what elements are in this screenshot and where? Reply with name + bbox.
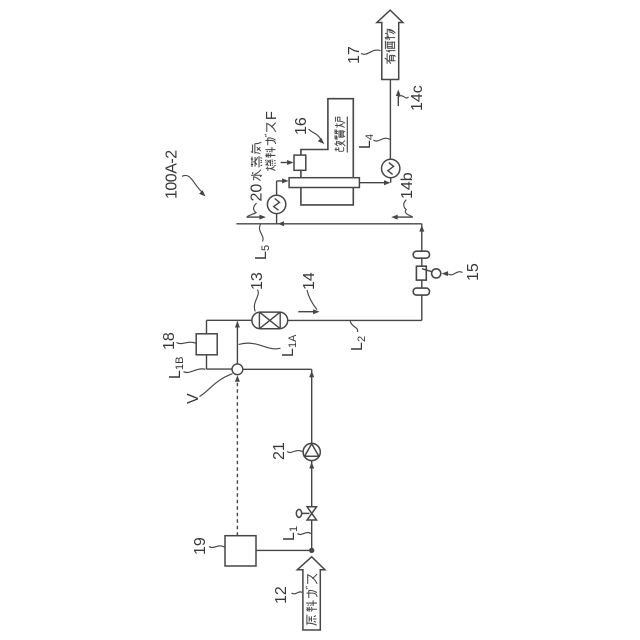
label 16 <box>293 117 324 144</box>
valve on L1 <box>296 507 316 520</box>
label 12 <box>273 586 302 604</box>
label 14b wire continues <box>389 80 391 160</box>
svg-text:5: 5 <box>260 245 272 251</box>
stream arrow 20 (steam in) <box>247 215 266 220</box>
label 21 <box>271 442 303 460</box>
box 18 <box>196 334 217 355</box>
svg-text:14c: 14c <box>409 85 426 111</box>
wire L4 tube to HX to product <box>359 178 390 186</box>
wire pump to corner to mixer V <box>243 369 312 443</box>
furnace 16 outline <box>301 99 353 205</box>
svg-text:1B: 1B <box>174 357 186 370</box>
wire box19 to junction <box>256 549 312 551</box>
wire V to reactor junction <box>236 322 238 364</box>
svg-text:2: 2 <box>356 336 368 342</box>
reformer tube <box>289 178 359 188</box>
wire corner to box 18 <box>206 320 208 334</box>
svg-text:1: 1 <box>288 526 300 532</box>
label L1A <box>239 334 299 357</box>
reactor vessel 13 <box>252 312 288 329</box>
feed arrow 12 (raw material gas) <box>297 557 325 630</box>
label 14b <box>399 172 416 216</box>
wire valve to pump <box>311 461 313 507</box>
dashed signal line 19 to V <box>236 382 238 536</box>
svg-text:13: 13 <box>249 272 266 290</box>
stream arrow 14b <box>391 215 413 220</box>
pump 21 <box>303 443 320 460</box>
wire to heat exchanger 20 <box>276 214 278 224</box>
text 改質炉 in furnace, underlined <box>335 117 348 153</box>
svg-text:L: L <box>349 342 366 351</box>
svg-text:4: 4 <box>364 134 376 140</box>
burner box <box>294 155 306 170</box>
wire L2 reactor down and right <box>288 224 422 321</box>
wire HX to reformer tube <box>277 178 289 195</box>
svg-text:L: L <box>280 348 297 357</box>
svg-text:14: 14 <box>301 272 318 290</box>
svg-text:16: 16 <box>293 117 310 135</box>
svg-text:V: V <box>185 393 202 404</box>
junction node <box>309 548 314 553</box>
burner fuel line <box>281 160 294 165</box>
wire L5 main vertical <box>236 223 421 225</box>
svg-text:20: 20 <box>249 184 266 202</box>
text 水蒸気 (steam) <box>251 142 262 181</box>
svg-text:1A: 1A <box>287 334 299 348</box>
label 20 steam <box>247 184 266 217</box>
wire L1 junction to valve <box>311 520 313 550</box>
svg-text:19: 19 <box>192 537 209 555</box>
label V <box>185 374 233 404</box>
flow arrow up on L5 <box>278 221 285 226</box>
label 18 <box>161 332 196 350</box>
flow arrow before corner <box>309 371 314 378</box>
label L4 <box>357 134 390 149</box>
stream arrow 14c <box>396 90 401 107</box>
wire corner down to reactor 13 <box>207 319 252 321</box>
label L2 <box>349 321 368 351</box>
svg-text:L: L <box>281 532 298 541</box>
heat exchanger (steam generator) <box>267 195 285 213</box>
label 14c <box>399 85 426 111</box>
svg-text:21: 21 <box>271 442 288 460</box>
text 有価物 in product arrow <box>385 29 396 64</box>
product arrow 17 (valuables) <box>377 10 403 79</box>
label 17 <box>346 46 381 64</box>
stream arrow 14 <box>298 309 319 314</box>
label 14 <box>301 272 318 309</box>
text 燃料ガス F (fuel gas) <box>265 123 276 171</box>
control valve 15 flanges and body <box>413 251 441 295</box>
label L1B <box>167 357 206 379</box>
svg-text:14b: 14b <box>399 172 416 199</box>
label 13 <box>249 272 266 311</box>
text 原料ガス in feed arrow <box>306 574 318 625</box>
flow arrow to L5 corner <box>419 225 424 232</box>
svg-text:18: 18 <box>161 332 178 350</box>
svg-text:L: L <box>357 140 374 149</box>
svg-text:L: L <box>167 370 184 379</box>
controller box 19 <box>225 536 256 566</box>
svg-text:L: L <box>253 251 270 260</box>
label 100A-2 <box>164 150 206 199</box>
mixer V circle <box>232 364 243 375</box>
svg-text:15: 15 <box>465 263 482 281</box>
svg-text:17: 17 <box>346 46 363 64</box>
svg-text:12: 12 <box>273 586 290 604</box>
wire box18 to V top <box>207 355 232 369</box>
label L1 <box>281 526 311 541</box>
label 19 <box>192 537 225 555</box>
label L5 <box>253 225 272 261</box>
heat exchanger on L4 <box>382 159 400 177</box>
label 15 <box>442 263 482 281</box>
svg-text:F: F <box>264 111 280 120</box>
svg-text:100A-2: 100A-2 <box>164 150 181 199</box>
flow arrow into pump <box>309 462 314 469</box>
